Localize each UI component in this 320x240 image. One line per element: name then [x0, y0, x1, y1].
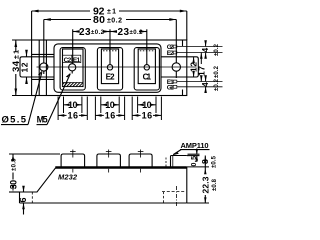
svg-text:C2: C2 [64, 57, 72, 64]
svg-text:±0.2: ±0.2 [214, 65, 220, 78]
svg-text:±0.2: ±0.2 [214, 78, 220, 91]
svg-text:80: 80 [93, 14, 105, 26]
svg-text:23: 23 [79, 27, 91, 38]
svg-text:±0.2: ±0.2 [91, 30, 105, 36]
svg-text:0.5: 0.5 [191, 156, 198, 167]
svg-text:Ø5.5: Ø5.5 [2, 115, 27, 126]
svg-text:±0.2: ±0.2 [214, 43, 220, 56]
svg-text:23: 23 [118, 27, 130, 38]
svg-text:30: 30 [9, 180, 19, 190]
svg-text:M232: M232 [58, 173, 78, 182]
svg-text:±1: ±1 [107, 9, 116, 16]
svg-text:AMP110: AMP110 [181, 141, 209, 150]
svg-text:±0.8: ±0.8 [212, 178, 218, 191]
svg-text:6: 6 [18, 197, 28, 202]
svg-text:±1: ±1 [14, 50, 21, 59]
svg-text:10: 10 [105, 100, 115, 110]
svg-text:±0.5: ±0.5 [211, 155, 217, 168]
svg-text:±0.2: ±0.2 [130, 30, 144, 36]
svg-text:10: 10 [142, 100, 152, 110]
svg-text:12: 12 [20, 62, 30, 72]
svg-text:E1: E1 [73, 57, 81, 64]
svg-text:17: 17 [197, 66, 207, 76]
svg-text:±0.8: ±0.8 [12, 158, 18, 171]
svg-text:C1: C1 [143, 73, 152, 82]
svg-text:16: 16 [105, 111, 116, 121]
svg-text:4: 4 [200, 82, 210, 87]
svg-text:22.3: 22.3 [200, 176, 210, 193]
svg-text:16: 16 [142, 111, 153, 121]
svg-text:4: 4 [200, 48, 210, 53]
svg-text:E2: E2 [106, 73, 116, 82]
svg-text:±0.2: ±0.2 [107, 18, 122, 25]
svg-text:M5: M5 [37, 114, 48, 124]
svg-text:E2: E2 [167, 50, 174, 57]
svg-text:8: 8 [200, 159, 210, 164]
svg-text:G1: G1 [167, 85, 174, 92]
svg-text:16: 16 [68, 111, 79, 121]
svg-text:10: 10 [68, 100, 78, 110]
